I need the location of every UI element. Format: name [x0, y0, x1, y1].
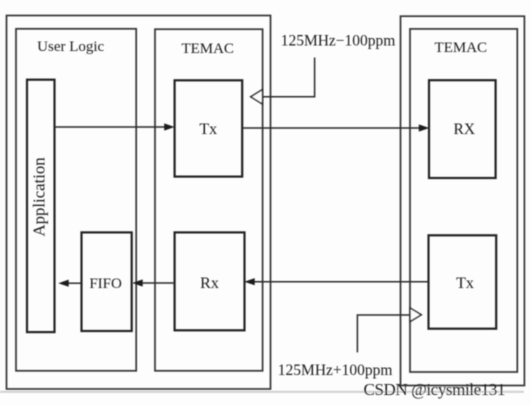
block TEMAC left: [155, 29, 263, 371]
svg-text:Application: Application: [30, 157, 49, 237]
svg-text:User Logic: User Logic: [37, 39, 104, 55]
clock wire 125MHz+100ppm: [357, 308, 421, 353]
block TEMAC right: [410, 29, 517, 372]
svg-text:CSDN @icysmile131: CSDN @icysmile131: [364, 380, 506, 399]
block User Logic: [16, 29, 136, 371]
label User Logic: [37, 39, 104, 55]
label 125MHz-100ppm: [281, 32, 396, 49]
svg-text:Tx: Tx: [199, 121, 217, 138]
wire Rx to FIFO: [132, 279, 174, 286]
svg-text:TEMAC: TEMAC: [435, 40, 488, 56]
label Tx right: [456, 275, 474, 292]
label TEMAC right: [435, 40, 488, 56]
svg-text:Rx: Rx: [200, 275, 219, 292]
label Application: [30, 157, 49, 237]
label 125MHz+100ppm: [278, 362, 393, 379]
watermark CSDN @icysmile131: [364, 380, 506, 399]
svg-text:RX: RX: [454, 121, 476, 138]
svg-text:Tx: Tx: [456, 275, 474, 292]
outer box right chip: [401, 16, 525, 385]
svg-text:125MHz+100ppm: 125MHz+100ppm: [278, 362, 393, 379]
block Application: [27, 80, 55, 332]
label FIFO: [89, 276, 122, 292]
wire Application to Tx: [55, 123, 175, 130]
wire FIFO to Application: [58, 280, 81, 287]
clock wire 125MHz-100ppm: [251, 58, 315, 105]
scan artifact bottom line: [0, 391, 524, 393]
label Tx left: [199, 121, 217, 138]
svg-text:FIFO: FIFO: [89, 276, 122, 292]
label RX: [454, 121, 476, 138]
wire right Tx to Rx: [244, 278, 428, 285]
block RX: [429, 80, 496, 178]
label TEMAC left: [181, 41, 234, 57]
outer box left chip: [7, 16, 271, 390]
block FIFO: [82, 232, 132, 331]
block Rx left: [175, 232, 245, 330]
block Tx left: [175, 80, 243, 176]
block Tx right: [429, 235, 497, 328]
label Rx left: [200, 275, 219, 292]
svg-text:125MHz−100ppm: 125MHz−100ppm: [281, 32, 396, 49]
wire Tx to RX: [243, 124, 430, 131]
svg-text:TEMAC: TEMAC: [181, 41, 234, 57]
